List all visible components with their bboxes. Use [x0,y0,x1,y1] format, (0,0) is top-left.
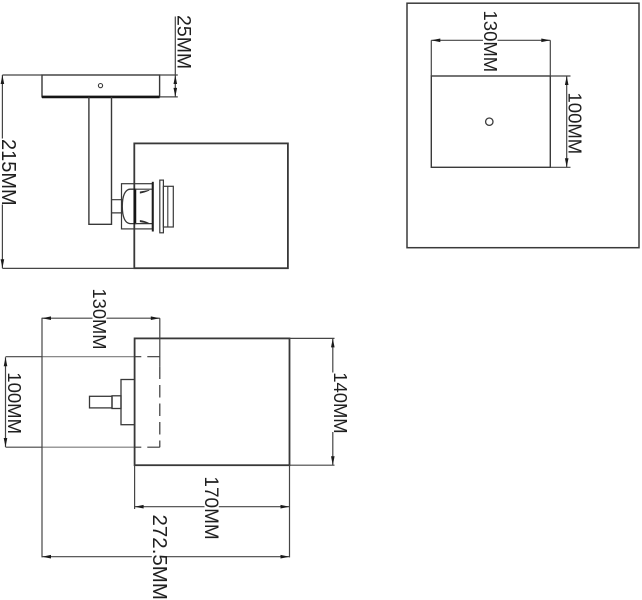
dim 140MM ext top [290,337,335,339]
arrow 170MM left [135,505,144,509]
arrow 130MM left [431,39,440,43]
arrow 215MM bottom [1,259,5,268]
dimensions of side view [2,17,177,269]
svg-text:100MM: 100MM [565,93,586,155]
arrow 25MM top [174,75,178,84]
joint bracket square [122,184,153,229]
arrow 100MM(front) top [4,357,8,366]
top spring clip [140,190,149,193]
arrow 100MM(front) bottom [4,438,8,447]
svg-text:130MM: 130MM [480,11,501,73]
ceiling plate (front view) top/bottom edges [42,357,135,448]
lamp shade (front view) [135,338,290,465]
dim 25MM line [174,17,176,97]
hole circle [486,118,493,125]
lamp shade (side view) [134,143,288,268]
arrow 100MM top [565,76,569,85]
dim 130MM(front) right extension [159,318,161,366]
svg-text:25MM: 25MM [173,15,195,69]
bottom spring clip [140,221,149,224]
dim 100MM ext bottom [550,166,570,168]
dim 130MM line [431,39,550,41]
stem [89,97,112,224]
dim 100MM(front) line [5,357,7,447]
knob stem [90,396,113,408]
dim 100MM ext top [550,75,570,77]
dim 272.5MM line [42,556,290,558]
dim 100MM line [566,76,568,167]
arrow 170MM right [281,505,290,509]
dim 170MM ext left [134,465,136,509]
dim 140MM ext bottom [290,464,335,466]
arrow 140MM top [331,338,335,347]
dim 215MM extension bottom [2,267,134,269]
dim 215MM line [1,75,3,268]
plate hidden top edge [135,356,160,358]
flange bar [152,182,154,232]
bulb housing seam [167,186,169,227]
arrow 25MM bottom [174,88,178,97]
dim 130MM(front) line [42,317,160,319]
dim 140MM line [332,338,334,465]
lamp inner top edge [135,188,152,190]
arrow 272.5MM right [281,555,290,559]
arrow 130MM(front) right [151,316,160,320]
wall plate bottom thick edge [42,96,160,99]
knob collar [112,396,121,409]
arrow 100MM bottom [565,158,569,167]
mounting hole circle [98,84,102,88]
dim 130MM(front) left extension / plate left edge / 272.5 extension [41,318,43,558]
dim 25MM extension top [160,74,178,76]
svg-text:215MM: 215MM [0,139,19,206]
ceiling plate (top view) [431,76,550,167]
lamp ring [160,180,164,233]
svg-text:100MM: 100MM [4,372,25,434]
dim 215MM extension top [2,74,42,76]
dim 170MM line [135,506,290,508]
dim 130MM ext left [430,40,432,76]
svg-text:272.5MM: 272.5MM [148,515,171,600]
plate hidden bottom edge [135,446,160,448]
arrow 140MM bottom [331,456,335,465]
yoke flat back thick line [134,189,137,225]
yoke rounded body [122,189,135,223]
boundary square [407,3,639,248]
arrow 272.5MM left [42,555,51,559]
knob plate [121,380,135,425]
extension segments 100MM [6,357,43,448]
shade right edge extension down [289,465,291,557]
arrow 130MM right [541,39,550,43]
dim 130MM ext right [549,40,551,76]
plate hidden right edge [159,367,161,448]
dim 25MM extension bottom [160,96,178,98]
svg-text:130MM: 130MM [89,289,110,350]
connector between stem and yoke [112,200,123,213]
wall plate (side view) [42,75,160,97]
bulb housing [163,186,173,227]
lamp inner bottom edge [135,223,152,225]
svg-text:170MM: 170MM [200,476,221,539]
arrow 130MM(front) left [42,316,51,320]
arrow 215MM top [1,75,5,84]
svg-text:140MM: 140MM [330,372,351,433]
